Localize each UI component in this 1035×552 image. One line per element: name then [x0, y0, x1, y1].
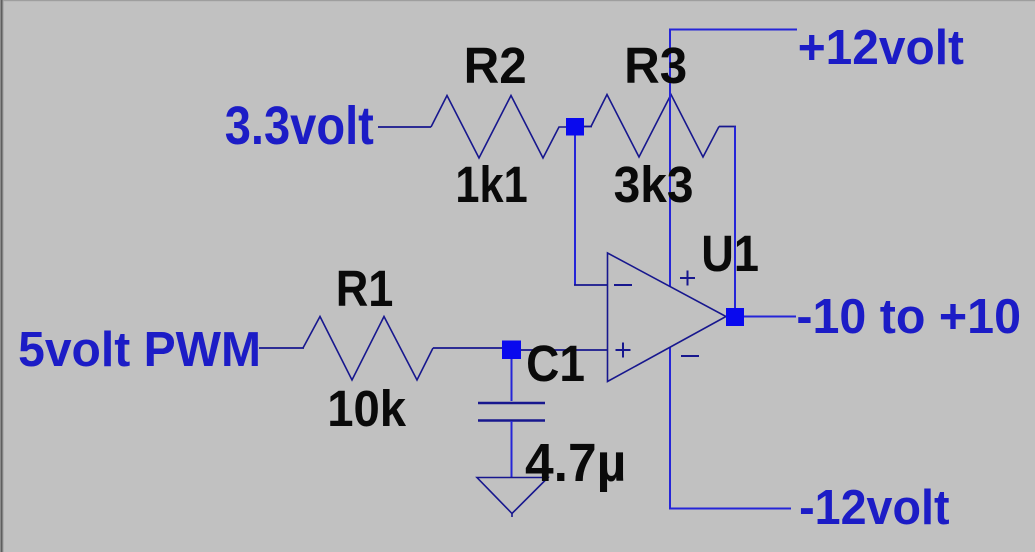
capacitor C1 bottom plate [478, 419, 545, 421]
svg-text:U1: U1 [701, 225, 759, 282]
wire: 3.3volt lead-in to R2 [378, 126, 431, 128]
wire: 5volt PWM lead-in to R1 [259, 347, 304, 349]
node square at op-amp output [726, 308, 744, 326]
op-amp negative supply minus sign [681, 355, 699, 357]
window left border [0, 0, 1, 552]
wire: capacitor to ground [511, 421, 513, 477]
capacitor C1 top plate [478, 402, 545, 404]
svg-text:4.7µ: 4.7µ [525, 433, 626, 493]
ground symbol [477, 478, 548, 514]
node square at C1 / R1 junction [502, 341, 521, 360]
wire: junction down to inverting input [574, 135, 576, 286]
svg-text:1k1: 1k1 [455, 157, 527, 214]
svg-text:+12volt: +12volt [798, 20, 964, 75]
op-amp non-inverting input plus sign [616, 349, 631, 351]
svg-text:3k3: 3k3 [614, 157, 694, 214]
svg-text:-10 to +10: -10 to +10 [796, 290, 1021, 345]
wire: junction square to R3 [584, 126, 592, 128]
op-amp inverting input minus sign [614, 284, 632, 286]
svg-text:5volt PWM: 5volt PWM [18, 322, 261, 377]
svg-text:3.3volt: 3.3volt [225, 95, 374, 156]
wire: +12 supply vertical through R3 to op-amp [669, 30, 671, 288]
node square between R2 and R3 [566, 118, 584, 136]
wire: -12 supply vertical from op-amp bottom edge [669, 347, 671, 509]
svg-text:R3: R3 [624, 37, 687, 94]
window top border [0, 0, 1035, 1]
wire: output to -10 to +10 label [744, 316, 796, 318]
op-amp U1 triangle [608, 253, 727, 382]
svg-text:R1: R1 [336, 260, 394, 317]
wire: feedback vertical down to output node [734, 127, 736, 309]
wire: R1 to C1 node [433, 347, 503, 349]
resistor R3 (zigzag body) [591, 95, 719, 158]
svg-text:R2: R2 [464, 37, 527, 94]
wire: R3 right to feedback corner [719, 126, 736, 128]
wire: C1 node down to capacitor [511, 358, 513, 401]
wire: C1 node to non-inverting input [520, 349, 608, 351]
resistor R2 (zigzag body) [431, 96, 566, 159]
svg-text:-12volt: -12volt [799, 480, 949, 536]
wire: +12 horizontal to +12volt label [669, 29, 797, 31]
wire: -12 horizontal to -12volt label [669, 508, 791, 510]
svg-text:10k: 10k [327, 380, 406, 437]
wire: horizontal into inverting input [574, 284, 608, 286]
resistor R1 (zigzag body) [303, 317, 433, 381]
svg-text:C1: C1 [526, 336, 585, 393]
op-amp positive supply plus sign [680, 277, 695, 279]
